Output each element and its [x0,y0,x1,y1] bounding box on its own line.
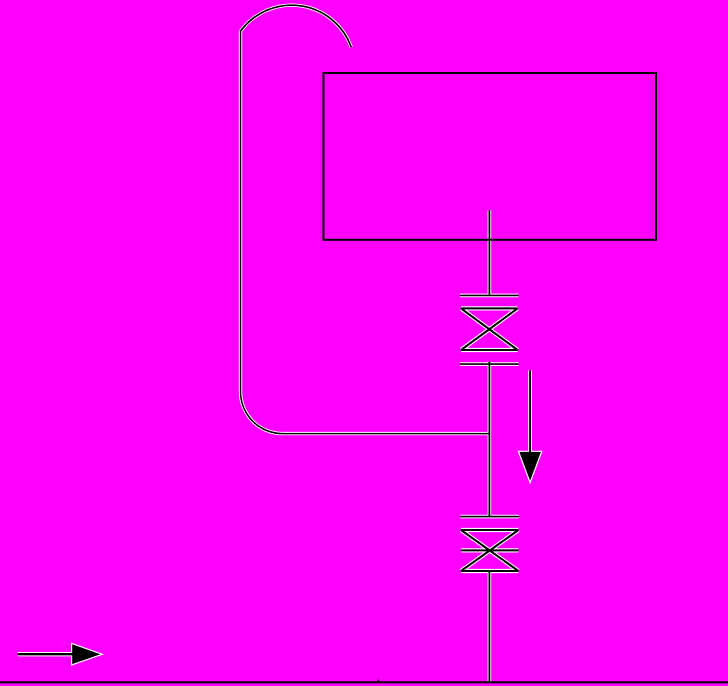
valve V1 body (gate valve bowtie) [461,308,518,350]
flow arrow right: head [72,644,100,664]
pipe: valve V2 down to header [488,571,490,682]
top gooseneck arc [241,5,352,47]
valve V2 body (bowtie with center seat line) [461,530,518,571]
white antialias halo underlayer [18,5,541,682]
pipe: valve V1 down to valve V2 [488,362,490,517]
flow arrow down: head [519,452,541,481]
pipe: vessel outlet down to valve V1 [488,210,490,294]
flow arrow right: shaft [18,653,73,655]
junction tick on header [377,680,379,683]
valve V2 upper flange bar [460,516,519,518]
bottom header line [0,681,728,683]
valve V1 lower flange bar [460,363,519,365]
valve V1 upper flange bar [460,294,519,296]
riser loop: left vertical pipe with rounded bottom corner and horizontal run [241,31,490,433]
vessel rectangle [324,73,657,240]
flow arrow down: shaft [529,370,531,452]
